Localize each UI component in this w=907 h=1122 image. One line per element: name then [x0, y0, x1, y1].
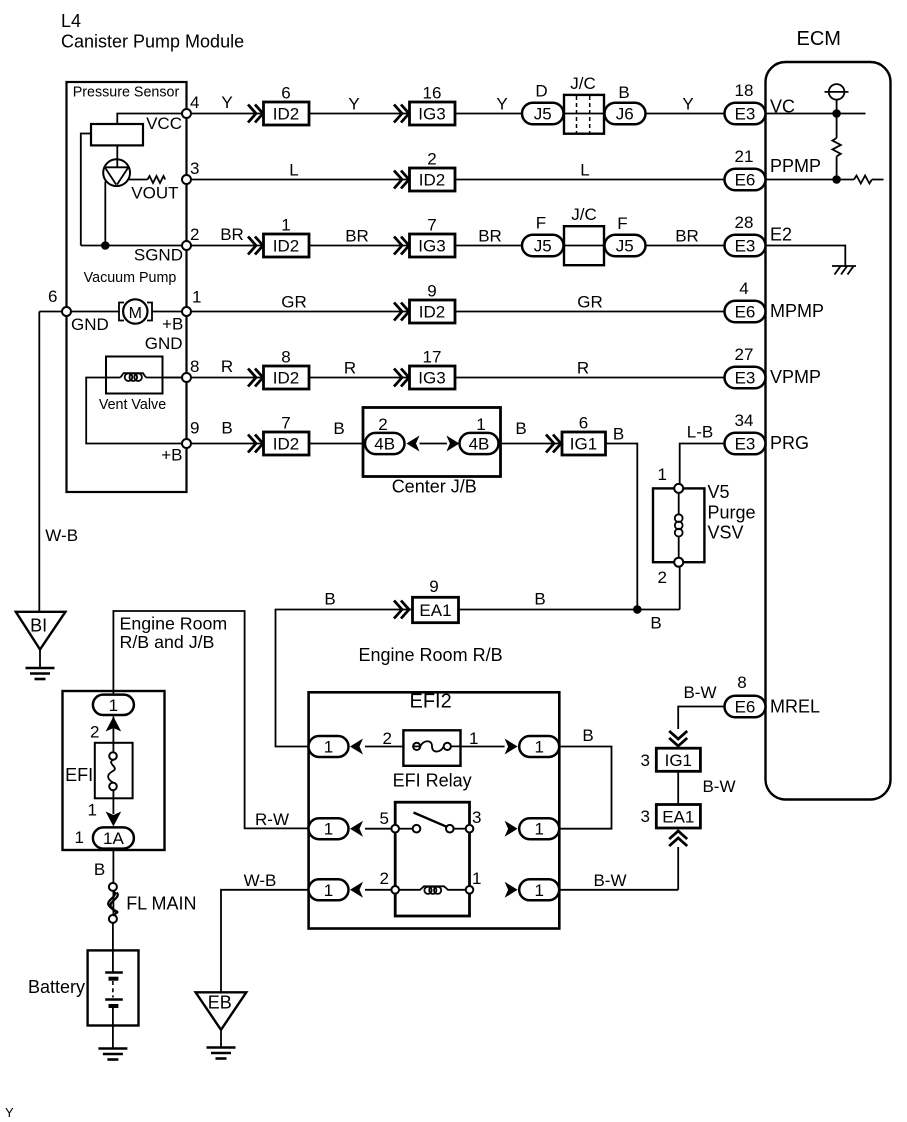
svg-text:PPMP: PPMP [770, 156, 821, 176]
svg-text:2: 2 [427, 150, 436, 169]
svg-text:F: F [536, 214, 546, 233]
svg-text:GND: GND [145, 334, 183, 353]
svg-text:16: 16 [423, 84, 442, 103]
svg-text:4: 4 [190, 93, 199, 112]
svg-text:9: 9 [190, 419, 199, 438]
svg-text:W-B: W-B [45, 526, 78, 545]
svg-text:B-W: B-W [593, 871, 626, 890]
svg-text:Engine Room R/B: Engine Room R/B [359, 645, 503, 665]
svg-text:1: 1 [324, 738, 333, 757]
svg-text:BR: BR [478, 227, 502, 246]
svg-text:E3: E3 [735, 435, 756, 454]
svg-text:VOUT: VOUT [131, 184, 178, 203]
svg-text:MPMP: MPMP [770, 301, 824, 321]
svg-text:2: 2 [190, 225, 199, 244]
svg-text:ID2: ID2 [273, 237, 299, 256]
svg-text:1: 1 [469, 729, 478, 748]
svg-text:VCC: VCC [146, 114, 182, 133]
svg-text:IG1: IG1 [665, 751, 692, 770]
svg-text:2: 2 [90, 723, 99, 742]
svg-text:B: B [333, 419, 344, 438]
svg-text:ID2: ID2 [419, 303, 445, 322]
svg-text:IG3: IG3 [418, 369, 445, 388]
svg-text:R: R [344, 359, 356, 378]
svg-text:E6: E6 [735, 303, 756, 322]
svg-text:Y: Y [496, 95, 507, 114]
svg-text:W-B: W-B [244, 871, 277, 890]
svg-text:7: 7 [427, 216, 436, 235]
svg-text:1: 1 [324, 881, 333, 900]
svg-text:IG3: IG3 [418, 237, 445, 256]
svg-text:17: 17 [423, 348, 442, 367]
svg-text:EFI2: EFI2 [410, 691, 452, 713]
svg-text:1A: 1A [103, 829, 124, 848]
svg-text:L-B: L-B [687, 423, 713, 442]
svg-text:4B: 4B [374, 435, 395, 454]
svg-text:L: L [580, 161, 589, 180]
svg-text:PRG: PRG [770, 433, 809, 453]
svg-text:1: 1 [534, 738, 543, 757]
svg-text:FL MAIN: FL MAIN [126, 894, 196, 914]
svg-text:4: 4 [739, 279, 748, 298]
svg-text:SGND: SGND [134, 246, 183, 265]
svg-text:J5: J5 [534, 105, 552, 124]
svg-text:ID2: ID2 [273, 105, 299, 124]
svg-text:B: B [221, 419, 232, 438]
svg-text:J6: J6 [616, 105, 634, 124]
svg-text:GR: GR [577, 293, 603, 312]
svg-text:IG3: IG3 [418, 105, 445, 124]
svg-text:E3: E3 [735, 105, 756, 124]
svg-text:18: 18 [735, 81, 754, 100]
svg-text:BI: BI [30, 616, 47, 636]
svg-text:1: 1 [534, 881, 543, 900]
svg-text:Y: Y [348, 95, 359, 114]
svg-text:IG1: IG1 [570, 435, 597, 454]
svg-text:21: 21 [735, 147, 754, 166]
svg-text:1: 1 [75, 828, 84, 847]
svg-text:8: 8 [190, 357, 199, 376]
svg-text:2: 2 [383, 729, 392, 748]
svg-text:BR: BR [345, 227, 369, 246]
svg-text:1: 1 [192, 288, 201, 307]
svg-text:ID2: ID2 [273, 435, 299, 454]
svg-text:EA1: EA1 [662, 807, 694, 826]
svg-text:9: 9 [427, 282, 436, 301]
svg-text:E6: E6 [735, 171, 756, 190]
svg-text:28: 28 [735, 213, 754, 232]
svg-text:EA1: EA1 [419, 601, 451, 620]
svg-text:B: B [515, 419, 526, 438]
svg-text:1: 1 [534, 820, 543, 839]
svg-text:VC: VC [770, 97, 795, 117]
svg-text:E6: E6 [735, 698, 756, 717]
svg-text:EB: EB [208, 993, 232, 1013]
svg-text:5: 5 [380, 809, 389, 828]
svg-text:B: B [94, 860, 105, 879]
svg-text:BR: BR [675, 227, 699, 246]
svg-text:1: 1 [472, 869, 481, 888]
svg-text:34: 34 [735, 411, 754, 430]
svg-text:8: 8 [737, 673, 746, 692]
svg-text:3: 3 [641, 751, 650, 770]
svg-text:7: 7 [281, 414, 290, 433]
svg-text:4B: 4B [469, 435, 490, 454]
svg-text:6: 6 [579, 414, 588, 433]
svg-text:Center J/B: Center J/B [392, 477, 477, 497]
svg-text:1: 1 [476, 415, 485, 434]
svg-text:J5: J5 [616, 237, 634, 256]
svg-text:E3: E3 [735, 369, 756, 388]
svg-text:VPMP: VPMP [770, 367, 821, 387]
svg-text:Battery: Battery [28, 977, 85, 997]
svg-text:Y: Y [682, 95, 693, 114]
svg-text:Pressure Sensor: Pressure Sensor [73, 85, 180, 101]
svg-text:F: F [617, 214, 627, 233]
svg-text:J/C: J/C [570, 74, 596, 93]
svg-text:EFI: EFI [65, 765, 93, 785]
svg-text:6: 6 [281, 84, 290, 103]
svg-text:B: B [582, 726, 593, 745]
svg-text:B: B [650, 614, 661, 633]
svg-text:GND: GND [71, 315, 109, 334]
svg-text:R: R [577, 359, 589, 378]
svg-text:Vacuum Pump: Vacuum Pump [84, 270, 177, 286]
svg-text:2: 2 [380, 869, 389, 888]
svg-text:VSV: VSV [708, 523, 744, 543]
svg-text:J/C: J/C [571, 205, 597, 224]
svg-text:B: B [613, 425, 624, 444]
svg-text:8: 8 [281, 348, 290, 367]
svg-text:L: L [289, 161, 298, 180]
svg-text:R/B and J/B: R/B and J/B [120, 632, 215, 652]
svg-text:9: 9 [429, 577, 438, 596]
svg-text:ID2: ID2 [273, 369, 299, 388]
svg-text:J5: J5 [534, 237, 552, 256]
svg-text:ID2: ID2 [419, 171, 445, 190]
svg-text:B: B [618, 83, 629, 102]
svg-text:2: 2 [658, 568, 667, 587]
svg-text:E3: E3 [735, 237, 756, 256]
svg-text:1: 1 [88, 801, 97, 820]
svg-text:3: 3 [190, 159, 199, 178]
svg-text:R: R [221, 357, 233, 376]
svg-text:27: 27 [735, 345, 754, 364]
svg-text:+B: +B [161, 446, 182, 465]
svg-text:1: 1 [658, 465, 667, 484]
svg-text:R-W: R-W [255, 810, 289, 829]
svg-text:D: D [535, 82, 547, 101]
svg-text:B-W: B-W [683, 683, 716, 702]
svg-text:Canister Pump Module: Canister Pump Module [61, 32, 244, 52]
svg-text:GR: GR [281, 293, 307, 312]
svg-text:E2: E2 [770, 225, 792, 245]
svg-text:ECM: ECM [797, 28, 841, 50]
svg-text:B: B [324, 590, 335, 609]
svg-text:BR: BR [220, 225, 244, 244]
svg-text:Y: Y [221, 93, 232, 112]
svg-text:B-W: B-W [702, 777, 735, 796]
svg-text:MREL: MREL [770, 697, 820, 717]
svg-text:1: 1 [109, 696, 118, 715]
svg-text:EFI Relay: EFI Relay [393, 771, 472, 791]
svg-text:+B: +B [162, 315, 183, 334]
svg-text:3: 3 [472, 808, 481, 827]
svg-text:6: 6 [48, 287, 57, 306]
svg-text:3: 3 [641, 807, 650, 826]
svg-text:M: M [129, 305, 142, 322]
svg-text:L4: L4 [61, 11, 81, 31]
svg-text:Vent Valve: Vent Valve [99, 397, 166, 413]
svg-text:1: 1 [281, 216, 290, 235]
svg-text:Purge: Purge [708, 503, 756, 523]
svg-text:V5: V5 [708, 482, 730, 502]
svg-text:2: 2 [378, 415, 387, 434]
svg-text:Y: Y [5, 1105, 14, 1120]
svg-text:Engine Room: Engine Room [120, 614, 228, 634]
svg-text:1: 1 [324, 820, 333, 839]
svg-text:B: B [534, 590, 545, 609]
